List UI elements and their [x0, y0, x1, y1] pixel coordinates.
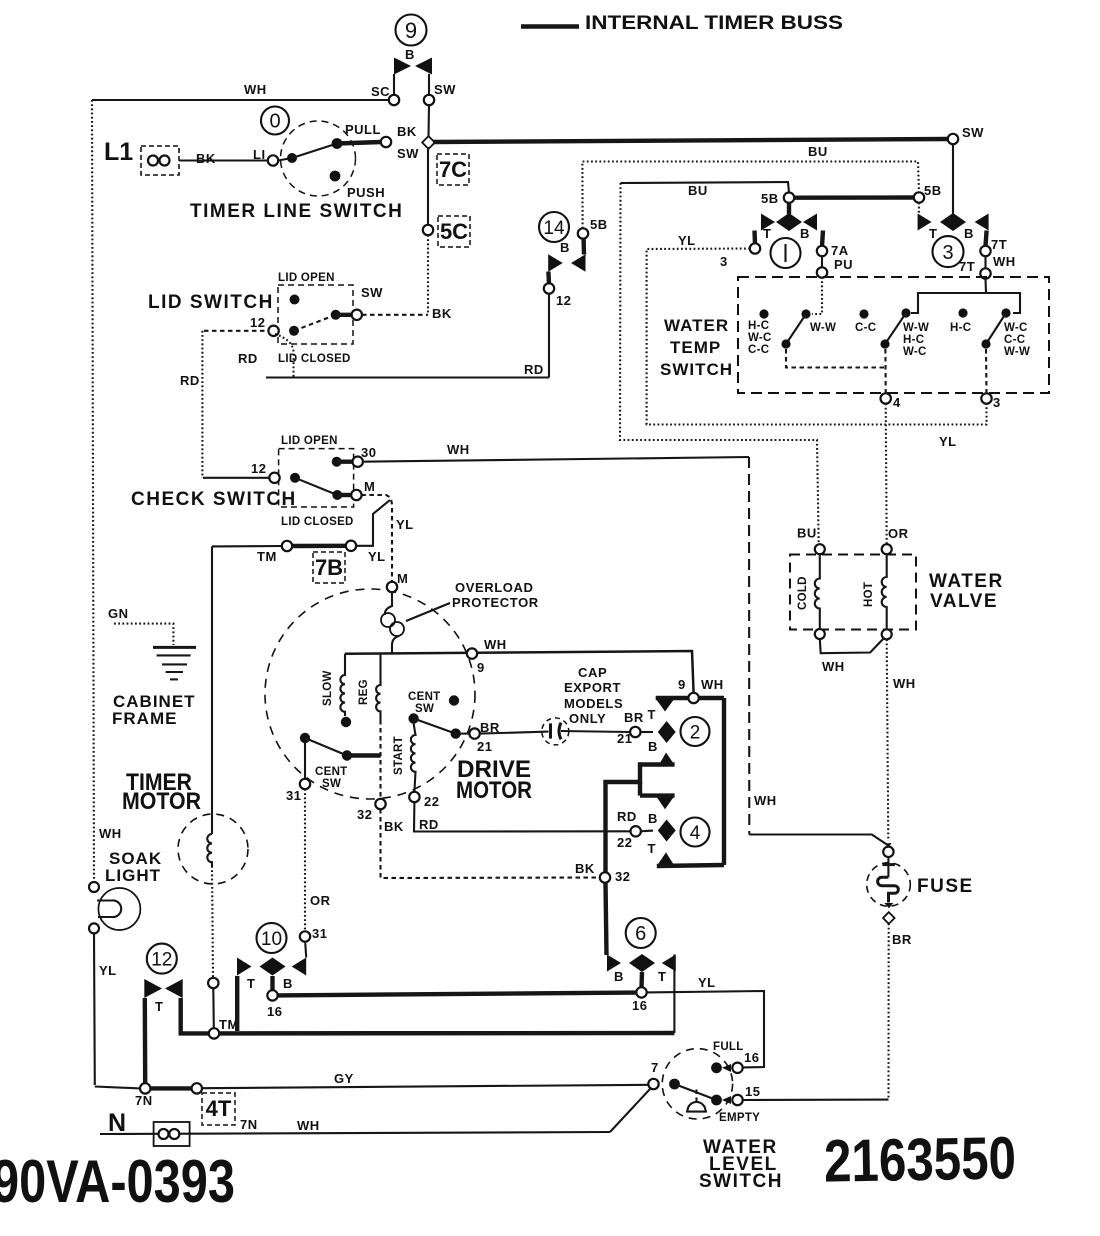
terminal BU valve: [815, 544, 825, 554]
svg-text:9: 9: [678, 677, 686, 692]
left cent sw blade: [305, 738, 347, 756]
svg-text:T: T: [648, 707, 656, 722]
cam 4 bottom bus to right riser: [657, 865, 724, 866]
svg-text:C-C: C-C: [748, 344, 769, 356]
svg-text:FUSE: FUSE: [917, 876, 974, 897]
svg-text:BU: BU: [797, 526, 817, 541]
wire cam9 right to SW terminal: [428, 74, 430, 95]
cam 2 top triangle: [656, 699, 675, 712]
terminal fuse top: [883, 847, 893, 857]
svg-text:WATER: WATER: [664, 316, 729, 335]
terminal GY: [192, 1083, 202, 1093]
fuse dashed circle: [867, 863, 911, 907]
terminal 7 wls: [648, 1079, 658, 1089]
temp switch 1 blade: [786, 314, 806, 344]
cam number 0: [261, 107, 289, 135]
svg-text:LID SWITCH: LID SWITCH: [148, 292, 274, 313]
water temp switch dashed box: [738, 277, 1049, 393]
temp switch 2 blade: [885, 313, 906, 344]
temp switch 3 upper contact: [1001, 308, 1010, 317]
wire 32 down to cam6: [606, 883, 607, 956]
svg-text:H-C: H-C: [903, 334, 924, 346]
svg-text:WH: WH: [447, 442, 470, 457]
svg-text:WH: WH: [484, 637, 507, 652]
cam number 2: [681, 717, 710, 746]
svg-text:WH: WH: [993, 254, 1016, 269]
wire 5C terminal down to lid switch level: [427, 235, 429, 315]
slow coil: [340, 654, 345, 716]
wire RD 22 to cam 4: [414, 802, 630, 832]
svg-text:3: 3: [942, 242, 953, 264]
svg-text:ONLY: ONLY: [569, 711, 606, 726]
wire bus SW down to cam3 diamond: [952, 144, 954, 214]
wire YL corner to 7N: [95, 1087, 140, 1089]
svg-text:SW: SW: [434, 82, 456, 97]
svg-text:32: 32: [357, 807, 372, 822]
temp switch 3 blade: [986, 313, 1006, 344]
svg-text:T: T: [929, 226, 937, 241]
wire cam1 right to 7A: [822, 231, 823, 247]
wire GN to ground: [114, 624, 173, 645]
wire contact to SW terminal: [336, 313, 352, 317]
svg-text:OVERLOAD: OVERLOAD: [455, 580, 533, 595]
wire pivot down to 31: [304, 743, 306, 779]
cam number 4: [681, 818, 710, 847]
svg-text:SC: SC: [371, 84, 390, 99]
svg-text:5B: 5B: [761, 191, 779, 206]
svg-text:3: 3: [720, 254, 728, 269]
wire L1 to LI terminal: [179, 159, 268, 161]
terminal M motor: [387, 582, 397, 592]
terminal LI: [268, 155, 278, 165]
svg-text:B: B: [560, 240, 570, 255]
cam 12 contacts: [144, 979, 162, 998]
svg-text:B: B: [648, 811, 658, 826]
terminal 7A: [817, 246, 827, 256]
terminal SW lid switch: [352, 310, 362, 320]
svg-text:16: 16: [267, 1004, 282, 1019]
svg-text:START: START: [393, 736, 405, 775]
wire N diagonal up to terminal 7: [610, 1089, 650, 1132]
internal timer bus thick wire: [433, 139, 948, 142]
svg-text:GY: GY: [334, 1071, 354, 1086]
svg-text:BK: BK: [196, 151, 216, 166]
overload pointer line: [406, 603, 450, 621]
svg-text:3: 3: [993, 395, 1001, 410]
cam number 12: [147, 944, 177, 974]
wire cam6 diamond to 16: [639, 972, 644, 987]
svg-text:WH: WH: [701, 677, 724, 692]
svg-text:W-C: W-C: [903, 346, 927, 358]
wire TM to YL thick: [292, 544, 346, 549]
wire YL 16 to water level switch: [647, 991, 765, 1067]
wire WH top: [92, 99, 389, 101]
wire contact to 21 terminal: [460, 733, 470, 735]
wire SW terminal down to bus junction: [427, 105, 430, 137]
cam 3 contacts: [918, 214, 932, 231]
timer line switch PUSH contact: [330, 171, 341, 182]
capacitor symbol: [549, 723, 552, 738]
svg-text:LIGHT: LIGHT: [105, 866, 161, 885]
terminal 3 temp switch: [981, 393, 991, 403]
svg-text:SW: SW: [415, 703, 434, 715]
terminal 4 temp switch: [881, 393, 891, 403]
svg-text:RD: RD: [524, 362, 544, 377]
wls EMPTY arrow: [722, 1096, 731, 1104]
terminal 22 cam4: [631, 826, 641, 836]
svg-text:0: 0: [269, 111, 280, 133]
temp contact H-C isolated dot: [759, 309, 768, 318]
check switch dashed box: [279, 449, 354, 507]
svg-text:12: 12: [250, 315, 265, 330]
temp switch 1 upper contact: [801, 309, 810, 318]
wire TM line thick to cam6 riser: [219, 1031, 674, 1036]
svg-text:N: N: [108, 1109, 126, 1137]
wire 30 contact to terminal: [337, 460, 353, 464]
wire BU2 down to water valve: [620, 183, 819, 544]
terminal 16 cam6: [636, 987, 646, 997]
terminal 5B cam1: [784, 193, 794, 203]
bus junction diamond: [422, 136, 435, 149]
svg-text:YL: YL: [939, 434, 957, 449]
svg-text:YL: YL: [368, 549, 386, 564]
cold coil: [815, 554, 820, 629]
svg-text:LID OPEN: LID OPEN: [278, 272, 335, 284]
svg-text:22: 22: [424, 794, 439, 809]
wire BR motor to capacitor: [480, 732, 549, 734]
wire cam10 right up to 31: [305, 942, 306, 958]
wire YL conn joins M wire: [356, 500, 390, 546]
right cent sw open contact: [449, 695, 459, 705]
svg-text:M: M: [364, 479, 375, 494]
soak light lamp circle: [98, 888, 140, 930]
svg-text:M: M: [397, 571, 408, 586]
terminal 32 junction: [600, 872, 610, 882]
svg-text:COLD: COLD: [797, 576, 809, 610]
terminal SW right: [948, 134, 958, 144]
cam 2 bottom triangle: [659, 753, 675, 766]
svg-text:FULL: FULL: [713, 1041, 744, 1053]
wire cam6 right down to TM line: [673, 955, 675, 1034]
temp contact C-C isolated dot: [859, 309, 868, 318]
wire 22 to cam4 diamond: [641, 830, 653, 833]
wire left border WH down: [92, 100, 94, 882]
wire BK 32 down and right: [381, 809, 601, 878]
cam 14 contacts: [548, 254, 563, 272]
wire capacitor to 21: [561, 731, 630, 732]
ground symbol: [153, 646, 196, 649]
svg-text:B: B: [405, 47, 415, 62]
reg coil on center line: [376, 654, 380, 720]
svg-text:16: 16: [632, 998, 647, 1013]
legend: internal timer buss thick line: [521, 24, 579, 28]
wire 5B to cam1 diamond: [787, 203, 791, 214]
terminal TM junction: [209, 1028, 219, 1038]
svg-text:90VA-0393: 90VA-0393: [0, 1148, 235, 1215]
svg-text:BR: BR: [624, 710, 644, 725]
wire PULL contact to SW terminal (thick): [337, 142, 381, 144]
terminal SW: [424, 95, 434, 105]
wire YL soak down: [93, 933, 96, 1085]
cam number 3: [933, 236, 964, 267]
svg-text:CENT: CENT: [408, 691, 441, 703]
svg-text:T: T: [648, 841, 656, 856]
wire TM vertical upper: [211, 546, 213, 834]
svg-text:PROTECTOR: PROTECTOR: [452, 595, 539, 610]
svg-text:2: 2: [690, 722, 701, 743]
svg-text:W-W: W-W: [810, 322, 836, 334]
terminal soak bottom: [89, 923, 99, 933]
temp contact H-C 2 isolated dot: [958, 308, 967, 317]
wire lower contact 2 down to terminal 4: [884, 349, 886, 394]
wls dome dotted link: [695, 1090, 697, 1104]
svg-text:YL: YL: [99, 963, 117, 978]
svg-text:H-C: H-C: [950, 322, 971, 334]
wire center line to 32: [379, 720, 381, 799]
tie wire 5B cam1 to 5B cam3 (thick): [794, 195, 914, 200]
terminal on TM line: [208, 978, 218, 988]
wire 16-16 thick: [278, 993, 637, 996]
svg-text:32: 32: [615, 869, 630, 884]
svg-text:SW: SW: [322, 778, 341, 790]
terminal YL conn: [346, 541, 356, 551]
svg-text:16: 16: [744, 1050, 759, 1065]
svg-text:BK: BK: [575, 861, 595, 876]
wire M contact to terminal: [337, 493, 351, 497]
svg-text:4: 4: [893, 395, 901, 410]
terminal 30: [353, 457, 363, 467]
terminal TM conn: [282, 541, 292, 551]
svg-text:SLOW: SLOW: [322, 670, 334, 706]
wls pressure dome: [688, 1102, 706, 1111]
wire 7N to second terminal thick: [150, 1086, 191, 1090]
terminal 31 motor: [300, 779, 310, 789]
svg-text:4: 4: [690, 823, 701, 844]
svg-text:BR: BR: [892, 932, 912, 947]
N connector contacts: [159, 1129, 169, 1139]
lid switch open contact: [290, 295, 300, 305]
wire WH riser dashed: [748, 457, 750, 835]
svg-text:W-C: W-C: [748, 332, 772, 344]
wire lid 12 curve down to RD line: [275, 334, 294, 378]
terminal 12 lid switch: [268, 326, 278, 336]
svg-text:EXPORT: EXPORT: [564, 680, 621, 695]
svg-text:OR: OR: [888, 526, 909, 541]
cam number 10: [257, 923, 287, 953]
svg-text:RD: RD: [419, 817, 439, 832]
wls FULL contact: [711, 1062, 722, 1073]
L1 connector contacts: [148, 156, 158, 166]
wire 7T to 7T: [984, 256, 986, 269]
svg-text:C-C: C-C: [855, 322, 876, 334]
terminal SW of line switch: [381, 137, 391, 147]
wire WH to fuse corner: [749, 835, 886, 845]
svg-text:7B: 7B: [315, 555, 343, 580]
svg-text:YL: YL: [678, 233, 696, 248]
lid switch blade: [294, 315, 336, 331]
wire bus junction down to 5C: [427, 147, 429, 225]
svg-text:CENT: CENT: [315, 766, 348, 778]
cam 10 contacts: [237, 958, 252, 976]
svg-text:LID CLOSED: LID CLOSED: [281, 516, 354, 528]
cam 1 contacts: [761, 214, 775, 231]
svg-text:LI: LI: [253, 147, 266, 162]
svg-text:B: B: [800, 226, 810, 241]
svg-text:WH: WH: [893, 676, 916, 691]
svg-text:W-W: W-W: [903, 322, 929, 334]
svg-text:SW: SW: [397, 146, 419, 161]
cam 9 contacts: [394, 58, 411, 75]
svg-text:TM: TM: [257, 549, 277, 564]
svg-text:21: 21: [477, 739, 492, 754]
svg-text:7A: 7A: [831, 243, 849, 258]
terminal 7T upper: [980, 246, 990, 256]
wire cam3 right down to 7T: [986, 231, 987, 247]
wire RD down to check switch 12: [201, 331, 203, 478]
cam 4 diamond: [658, 820, 676, 842]
svg-text:B: B: [964, 226, 974, 241]
terminal 3 cam1: [750, 243, 760, 253]
drive motor dashed circle: [265, 589, 475, 799]
terminal at 5C: [423, 225, 433, 235]
wire cam14 12 down to RD line: [548, 294, 550, 378]
right cent sw blade: [414, 719, 456, 734]
cam 4 bottom triangle: [657, 852, 675, 866]
svg-text:30: 30: [361, 445, 376, 460]
wire cam9 left to SC terminal: [393, 74, 395, 95]
timer line switch blade: [292, 144, 337, 159]
svg-text:7T: 7T: [959, 259, 975, 274]
wire cam12 right down to TM line: [181, 998, 209, 1033]
wire 15 to BR riser: [743, 1099, 889, 1102]
terminal 31 cam10: [300, 931, 310, 941]
svg-text:31: 31: [312, 926, 327, 941]
svg-text:PU: PU: [834, 257, 853, 272]
svg-text:INTERNAL TIMER BUSS: INTERNAL TIMER BUSS: [585, 13, 843, 34]
wire OR 31 down to cam10: [304, 789, 306, 931]
soak light filament: [97, 900, 121, 917]
terminal 15 wls: [732, 1095, 742, 1105]
svg-text:SWITCH: SWITCH: [660, 360, 733, 379]
wire cam4 T up to step: [638, 782, 642, 796]
svg-text:12: 12: [556, 293, 571, 308]
terminal 22 motor: [409, 792, 419, 802]
lid switch closed contact: [331, 310, 341, 320]
svg-text:SW: SW: [361, 285, 383, 300]
terminal 5B cam14: [578, 228, 588, 238]
wire RD horizontal to cam 14: [266, 376, 549, 378]
terminal 5B cam3: [914, 192, 924, 202]
start coil: [411, 724, 416, 793]
svg-text:T: T: [658, 969, 666, 984]
svg-text:7N: 7N: [240, 1117, 258, 1132]
terminal fuse bottom diamond: [883, 912, 895, 924]
wls EMPTY contact: [711, 1095, 722, 1106]
wire cam1 left to terminal 3: [752, 231, 757, 244]
svg-text:H-C: H-C: [748, 320, 769, 332]
wire 7A to PU: [821, 256, 823, 268]
svg-text:7N: 7N: [135, 1093, 153, 1108]
svg-text:5B: 5B: [924, 183, 942, 198]
right cent sw contact: [451, 728, 461, 738]
wls FULL arrow: [722, 1064, 731, 1072]
svg-text:VALVE: VALVE: [930, 591, 998, 612]
terminal 9 cam2: [688, 693, 698, 703]
svg-text:YL: YL: [698, 975, 716, 990]
svg-text:GN: GN: [108, 606, 129, 621]
svg-text:WH: WH: [244, 82, 267, 97]
check switch blade: [295, 478, 337, 495]
cam number 6: [626, 918, 656, 948]
timer motor coil: [207, 834, 212, 866]
svg-text:TEMP: TEMP: [670, 338, 721, 357]
wire 12 check to left corner: [203, 477, 270, 479]
wire 7T down into box tee: [911, 279, 986, 314]
lid switch pivot contact: [289, 326, 299, 336]
svg-text:C-C: C-C: [1004, 334, 1025, 346]
terminal 9 WH motor: [467, 648, 477, 658]
fuse element S curve: [878, 877, 899, 902]
check switch 30 contact: [332, 457, 342, 467]
svg-text:WH: WH: [754, 793, 777, 808]
right cent sw pivot: [408, 713, 418, 723]
terminal PU: [817, 267, 827, 277]
wire 5B cam3 down to left triangle: [918, 203, 920, 216]
left cent sw contact: [342, 750, 352, 760]
temp switch 2 lower contact: [880, 339, 889, 348]
cam 2 diamond: [658, 721, 676, 743]
svg-text:6: 6: [635, 923, 646, 945]
svg-text:HOT: HOT: [863, 582, 875, 607]
fuse top tick: [883, 863, 895, 866]
svg-text:W-W: W-W: [1004, 346, 1030, 358]
wire N line: [100, 1132, 610, 1134]
svg-text:YL: YL: [396, 517, 414, 532]
overload protector coil: [385, 592, 392, 615]
wire lower contact 3 down to terminal 3: [985, 349, 988, 394]
svg-text:TIMER LINE SWITCH: TIMER LINE SWITCH: [190, 201, 403, 222]
terminal 16 cam10: [267, 990, 277, 1000]
wire BR fuse down: [887, 924, 889, 1100]
svg-text:EMPTY: EMPTY: [719, 1112, 760, 1124]
wire TM-YL connector line: [212, 545, 282, 548]
water valve dashed box: [790, 555, 916, 630]
wire BU2 corner to 5B cam1: [621, 182, 790, 193]
svg-text:15: 15: [745, 1084, 760, 1099]
svg-text:B: B: [648, 739, 658, 754]
wire 5B down to cam14 right: [581, 239, 586, 255]
svg-text:21: 21: [617, 731, 632, 746]
timer line switch PULL contact: [332, 138, 343, 149]
terminal OR valve: [882, 544, 892, 554]
svg-text:L1: L1: [104, 138, 133, 166]
wire BU1 from 5B cam14 up-right to 5B cam3: [582, 162, 919, 229]
svg-text:9: 9: [405, 18, 417, 43]
terminal soak top: [89, 882, 99, 892]
svg-text:FRAME: FRAME: [112, 709, 177, 728]
N connector box: [154, 1122, 190, 1146]
svg-text:T: T: [247, 976, 255, 991]
terminal 12 check: [269, 473, 279, 483]
temp switch 3 lower contact: [981, 339, 990, 348]
svg-text:SW: SW: [962, 125, 984, 140]
wls blade: [675, 1084, 717, 1100]
wire 12 to left: [204, 330, 268, 332]
box 4T: [202, 1093, 235, 1125]
fuse bottom tick: [884, 903, 893, 908]
terminal valve bottom right: [882, 629, 892, 639]
terminal SC: [389, 95, 399, 105]
